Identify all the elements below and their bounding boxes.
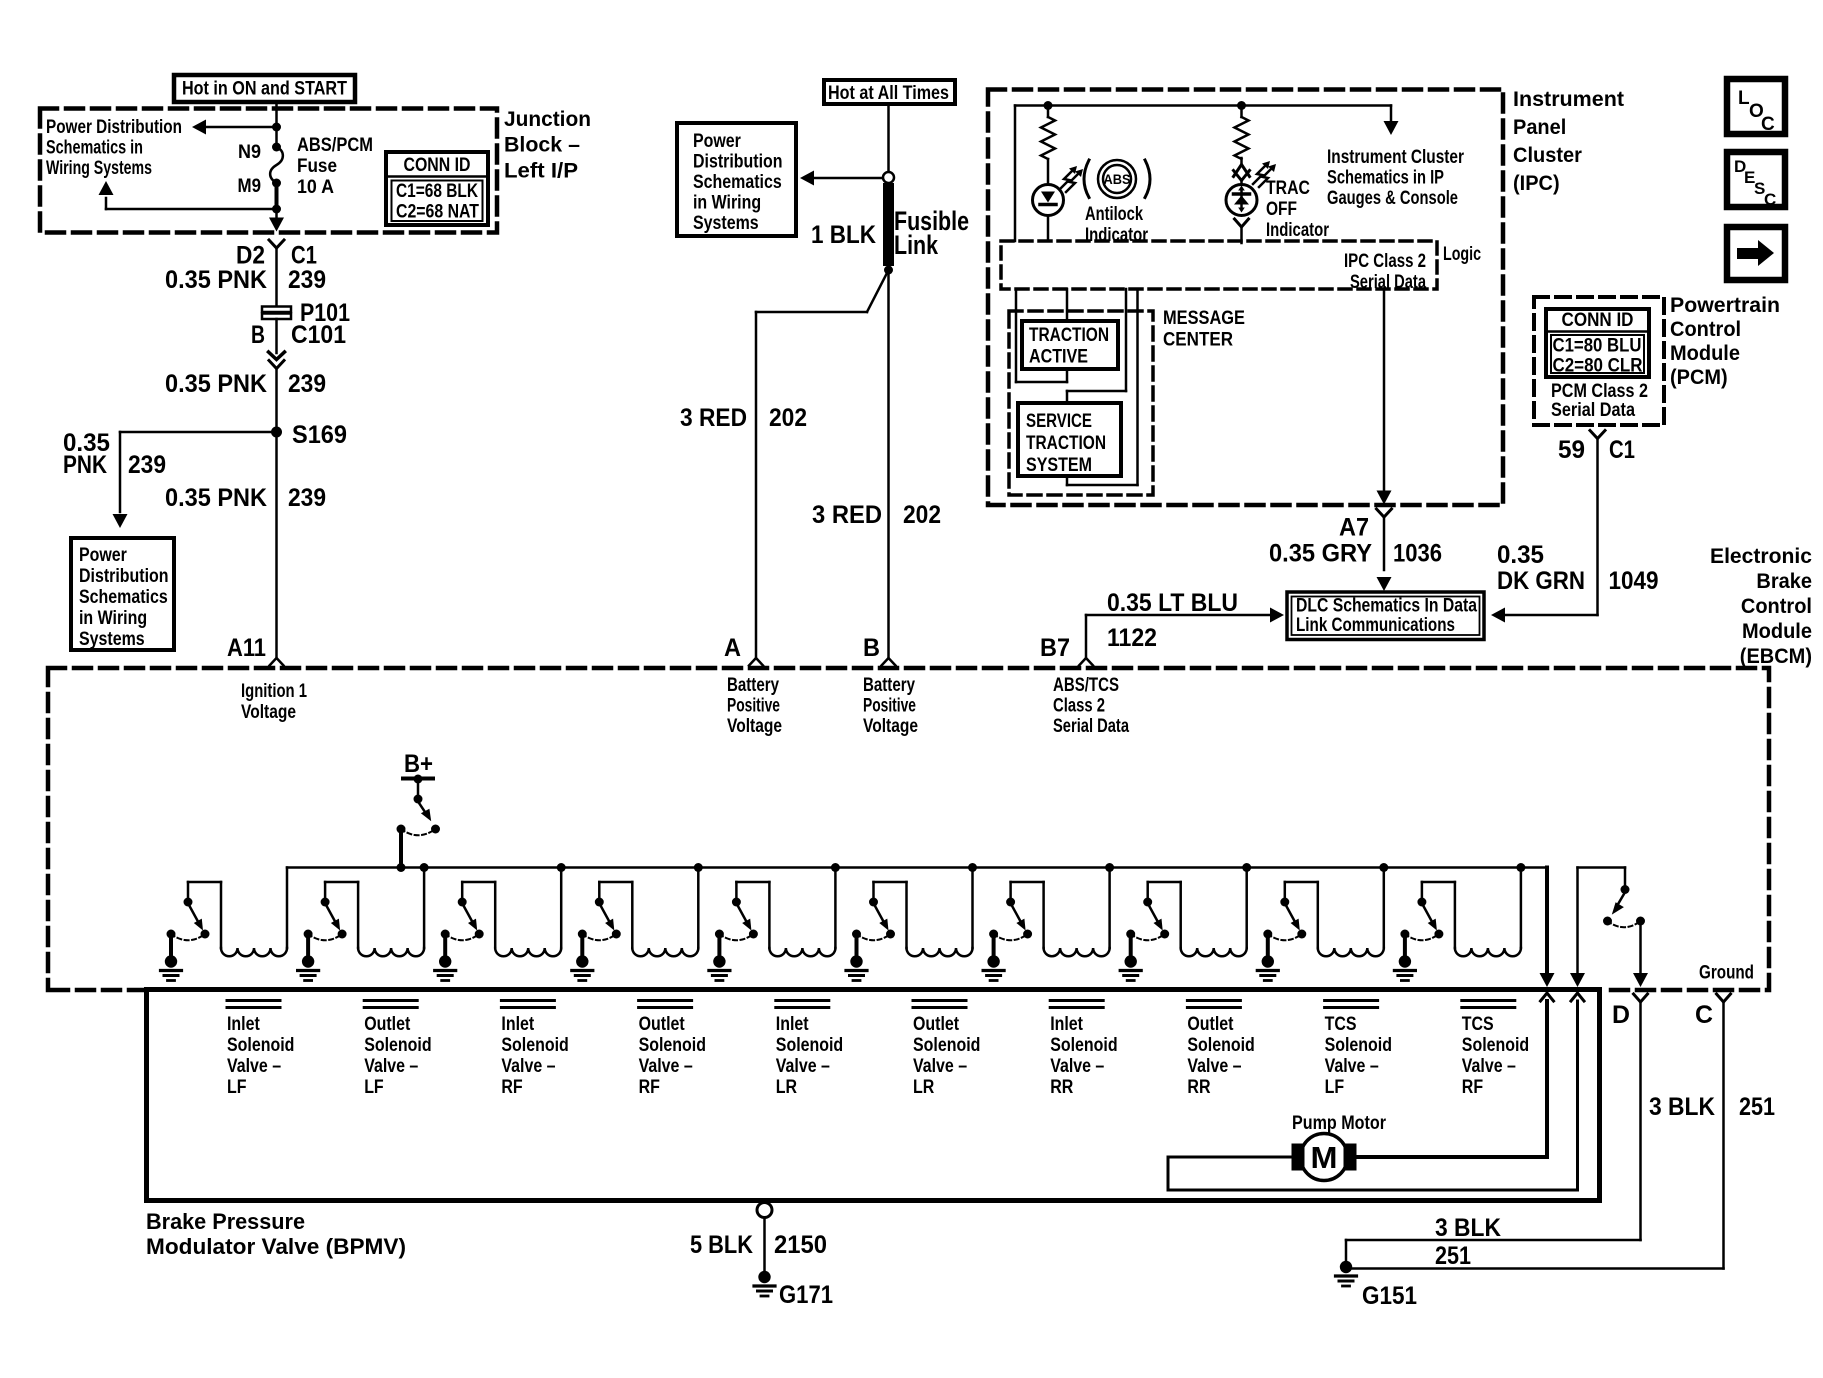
svg-text:SERVICE: SERVICE: [1026, 411, 1092, 432]
resistor R2 (TRAC OFF): [1235, 101, 1249, 159]
label IPC Class 2 Serial Data: [1344, 251, 1426, 293]
svg-text:Solenoid: Solenoid: [364, 1035, 431, 1056]
wire C101 to S169: [275, 369, 278, 433]
grommet P101: [262, 307, 291, 320]
label P101: [300, 299, 350, 327]
svg-text:TRACTION: TRACTION: [1029, 325, 1109, 346]
svg-text:3 RED: 3 RED: [812, 501, 882, 529]
svg-text:CENTER: CENTER: [1163, 330, 1233, 351]
svg-text:Valve –: Valve –: [776, 1056, 830, 1077]
label 3 BLK 251 (D wire): [1435, 1214, 1501, 1270]
diagonal wire below fusible link: [756, 270, 889, 312]
svg-text:B: B: [251, 321, 265, 349]
svg-text:Brake Pressure: Brake Pressure: [146, 1209, 305, 1234]
svg-text:in Wiring: in Wiring: [693, 193, 761, 214]
label 0.35 PNK 239 (row1): [165, 266, 326, 294]
svg-text:S169: S169: [292, 421, 347, 449]
fuse F1 ABS/PCM 10A: [270, 143, 283, 188]
label Logic: [1443, 244, 1481, 265]
solenoid driver cell 7 (Inlet RR): [983, 863, 1114, 981]
solenoid driver cell 9 (TCS LF): [1257, 863, 1388, 981]
label 0.35 PNK (branch): [63, 429, 110, 479]
svg-text:Valve –: Valve –: [227, 1056, 281, 1077]
svg-text:Battery: Battery: [863, 675, 915, 696]
terminal 59 C1 cup: [1590, 431, 1605, 439]
title Electronic Brake Control Module (EBCM): [1710, 544, 1812, 668]
pump motor M1: [1292, 1113, 1387, 1181]
svg-text:0.35: 0.35: [1497, 541, 1544, 569]
solenoid valve label 2 (Outlet LF): [364, 1001, 431, 1099]
solenoid driver cell 3 (Inlet RF): [435, 863, 566, 981]
svg-text:C: C: [1695, 1001, 1713, 1029]
resistor R1 (antilock): [1041, 101, 1055, 185]
wire from Hot box to fuse: [275, 102, 278, 147]
svg-text:Voltage: Voltage: [863, 716, 918, 737]
svg-text:5 BLK: 5 BLK: [690, 1231, 753, 1259]
label MESSAGE CENTER: [1163, 308, 1245, 351]
label 3 RED 202 (wire A): [680, 404, 807, 432]
lightning arrows (TRAC OFF): [1253, 161, 1276, 187]
svg-text:251: 251: [1435, 1242, 1471, 1270]
label Instrument Cluster Schematics in IP Gauges & Console: [1327, 147, 1464, 209]
svg-text:Class 2: Class 2: [1053, 696, 1105, 717]
svg-text:Ignition 1: Ignition 1: [241, 681, 307, 702]
solenoid valve label 10 (TCS RF): [1462, 1001, 1529, 1099]
label ABS/PCM Fuse 10 A: [297, 135, 373, 198]
svg-text:A11: A11: [227, 634, 266, 662]
B+ switch: [397, 750, 441, 868]
svg-text:Gauges & Console: Gauges & Console: [1327, 188, 1458, 209]
svg-text:Junction: Junction: [504, 107, 591, 131]
svg-text:Module: Module: [1742, 619, 1812, 643]
svg-text:CONN ID: CONN ID: [404, 155, 471, 176]
exit arrow from junction block: [269, 209, 284, 232]
svg-text:LF: LF: [364, 1077, 384, 1098]
wire P101 to C101: [275, 319, 278, 353]
label 239 (branch): [128, 451, 166, 479]
svg-text:N9: N9: [238, 141, 261, 163]
svg-text:Link Communications: Link Communications: [1296, 615, 1455, 636]
solenoid valve label 1 (Inlet LF): [227, 1001, 294, 1099]
svg-text:LF: LF: [1325, 1077, 1345, 1098]
svg-text:D: D: [1612, 1001, 1630, 1029]
Hot in ON and START box: [174, 75, 355, 102]
label B / C101: [251, 321, 346, 349]
svg-text:Schematics: Schematics: [79, 587, 168, 608]
inline connector C101: [269, 352, 285, 369]
svg-text:Outlet: Outlet: [639, 1014, 686, 1035]
ground G171: [754, 1271, 775, 1296]
bus feed to pump motor: [1540, 868, 1555, 988]
label 0.35 PNK 239 (row3): [165, 484, 326, 512]
svg-text:Voltage: Voltage: [241, 702, 296, 723]
svg-text:Module: Module: [1670, 341, 1740, 365]
label B7: [1040, 634, 1070, 662]
svg-text:A: A: [724, 634, 741, 662]
svg-text:C1=68 BLK: C1=68 BLK: [396, 181, 478, 202]
svg-text:Ground: Ground: [1699, 963, 1754, 984]
svg-text:C101: C101: [291, 321, 346, 349]
svg-text:3 RED: 3 RED: [680, 404, 747, 432]
svg-text:Electronic: Electronic: [1710, 544, 1812, 568]
svg-text:Brake: Brake: [1756, 569, 1812, 593]
svg-text:Solenoid: Solenoid: [1325, 1035, 1392, 1056]
terminal C cup: [1717, 994, 1731, 1002]
CONN ID table (PCM): [1546, 309, 1649, 377]
svg-text:Solenoid: Solenoid: [1050, 1035, 1117, 1056]
label 0.35 GRY 1036: [1269, 540, 1442, 568]
svg-text:Instrument: Instrument: [1513, 87, 1624, 111]
svg-text:Positive: Positive: [727, 696, 780, 717]
pump motor feed wire: [1357, 1001, 1548, 1157]
svg-text:202: 202: [769, 404, 807, 432]
svg-text:Valve –: Valve –: [1050, 1056, 1104, 1077]
solenoid driver cell 2 (Outlet LF): [298, 863, 429, 981]
svg-text:Cluster: Cluster: [1513, 143, 1582, 167]
svg-text:Schematics: Schematics: [693, 172, 782, 193]
DESC icon: [1727, 152, 1785, 209]
svg-text:1122: 1122: [1107, 624, 1157, 652]
svg-text:ABS/PCM: ABS/PCM: [297, 135, 373, 156]
solenoid driver cell 6 (Outlet LR): [846, 863, 977, 981]
svg-text:ABS/TCS: ABS/TCS: [1053, 675, 1119, 696]
label M9: [238, 175, 262, 197]
wire to P101: [275, 248, 278, 306]
wire C to G151: [1351, 1002, 1724, 1269]
ground wire G171: [757, 1203, 772, 1272]
svg-text:DK GRN: DK GRN: [1497, 567, 1585, 595]
svg-text:A7: A7: [1339, 514, 1369, 542]
svg-text:1049: 1049: [1609, 567, 1659, 595]
svg-text:C2=80 CLR: C2=80 CLR: [1553, 356, 1643, 377]
svg-text:Outlet: Outlet: [364, 1014, 411, 1035]
svg-text:(EBCM): (EBCM): [1740, 644, 1812, 668]
svg-text:C: C: [1764, 190, 1776, 209]
svg-text:C: C: [1761, 114, 1775, 135]
solenoid valve label 7 (Inlet RR): [1050, 1001, 1117, 1099]
svg-text:PCM Class 2: PCM Class 2: [1551, 381, 1648, 402]
svg-text:C1: C1: [1609, 436, 1635, 464]
ABS symbol: [1084, 160, 1150, 198]
solenoid driver cell 8 (Outlet RR): [1120, 863, 1251, 981]
EBCM dashed box: [48, 668, 1769, 990]
wire switch to D terminal: [1633, 925, 1648, 987]
LED TRAC OFF indicator: [1226, 185, 1257, 216]
label B: [863, 634, 880, 662]
svg-text:RF: RF: [639, 1077, 660, 1098]
svg-text:0.35 LT BLU: 0.35 LT BLU: [1107, 589, 1238, 617]
svg-text:251: 251: [1739, 1093, 1775, 1121]
svg-text:Valve –: Valve –: [501, 1056, 555, 1077]
connector cup below TRAC OFF LED: [1235, 219, 1249, 243]
solenoid valve label 5 (Inlet LR): [776, 1001, 843, 1099]
label 0.35 LT BLU 1122: [1107, 589, 1238, 652]
svg-text:OFF: OFF: [1266, 199, 1297, 220]
TRACTION ACTIVE box: [1022, 321, 1118, 369]
label TRAC OFF Indicator: [1266, 178, 1329, 241]
svg-text:LR: LR: [776, 1077, 798, 1098]
svg-text:Indicator: Indicator: [1085, 225, 1148, 246]
message center wires: [1016, 289, 1138, 485]
next-page arrow icon: [1727, 227, 1785, 280]
svg-text:B+: B+: [404, 750, 433, 778]
svg-text:Powertrain: Powertrain: [1670, 293, 1780, 317]
svg-text:Outlet: Outlet: [1187, 1014, 1234, 1035]
svg-text:M: M: [1311, 1140, 1338, 1175]
Power Distribution box (left): [71, 538, 174, 650]
wire S169 to A11: [275, 432, 278, 658]
svg-text:3 BLK: 3 BLK: [1649, 1093, 1715, 1121]
label 0.35 PNK 239 (row2): [165, 370, 326, 398]
svg-text:Voltage: Voltage: [727, 716, 782, 737]
SERVICE TRACTION SYSTEM box: [1018, 403, 1121, 476]
solenoid valve label 4 (Outlet RF): [639, 1001, 706, 1099]
svg-text:LF: LF: [227, 1077, 247, 1098]
label A11: [227, 634, 266, 662]
terminal D cup: [1634, 994, 1648, 1002]
svg-text:TCS: TCS: [1325, 1014, 1357, 1035]
svg-text:Power Distribution: Power Distribution: [46, 117, 182, 138]
svg-text:1 BLK: 1 BLK: [811, 221, 876, 249]
svg-text:ACTIVE: ACTIVE: [1029, 347, 1088, 368]
svg-text:Valve –: Valve –: [913, 1056, 967, 1077]
svg-text:in Wiring: in Wiring: [79, 608, 147, 629]
label Fusible Link: [894, 206, 969, 260]
label G151: [1362, 1282, 1417, 1310]
DLC box: [1287, 592, 1484, 640]
svg-text:Inlet: Inlet: [227, 1014, 260, 1035]
svg-text:Valve –: Valve –: [639, 1056, 693, 1077]
title Powertrain Control Module (PCM): [1670, 293, 1780, 389]
svg-text:Outlet: Outlet: [913, 1014, 960, 1035]
label 5 BLK 2150: [690, 1231, 827, 1259]
inline connector pair above TRAC OFF LED: [1234, 158, 1250, 185]
label S169: [292, 421, 347, 449]
svg-text:0.35 PNK: 0.35 PNK: [165, 266, 267, 294]
svg-text:0.35 GRY: 0.35 GRY: [1269, 540, 1372, 568]
svg-text:Link: Link: [894, 230, 938, 260]
svg-text:239: 239: [288, 484, 326, 512]
wire B down: [887, 270, 890, 658]
svg-text:Valve –: Valve –: [1187, 1056, 1241, 1077]
svg-text:(IPC): (IPC): [1513, 171, 1560, 195]
svg-text:(PCM): (PCM): [1670, 365, 1728, 389]
logic dashed box: [1001, 241, 1437, 289]
svg-text:RF: RF: [1462, 1077, 1483, 1098]
svg-text:Hot at All Times: Hot at All Times: [828, 83, 949, 104]
svg-text:TRAC: TRAC: [1266, 178, 1310, 199]
solenoid valve label 3 (Inlet RF): [501, 1001, 568, 1099]
IPC supply wire: [1015, 106, 1391, 242]
label A7: [1339, 514, 1369, 542]
svg-text:Indicator: Indicator: [1266, 220, 1329, 241]
svg-text:G151: G151: [1362, 1282, 1417, 1310]
label N9: [238, 141, 261, 163]
svg-text:IPC Class 2: IPC Class 2: [1344, 251, 1426, 272]
svg-text:1036: 1036: [1393, 540, 1442, 568]
svg-text:Block –: Block –: [504, 133, 580, 157]
svg-text:M9: M9: [238, 175, 262, 197]
svg-text:Inlet: Inlet: [501, 1014, 534, 1035]
svg-text:Solenoid: Solenoid: [501, 1035, 568, 1056]
svg-text:0.35 PNK: 0.35 PNK: [165, 484, 267, 512]
label ABS/TCS Class 2 Serial Data: [1053, 675, 1129, 737]
label Antilock Indicator: [1085, 204, 1148, 246]
svg-text:C2=68 NAT: C2=68 NAT: [396, 202, 479, 223]
svg-text:Schematics in IP: Schematics in IP: [1327, 168, 1444, 189]
IPC class2 output wire A7: [1377, 289, 1392, 505]
svg-text:Battery: Battery: [727, 675, 779, 696]
label 3 RED 202 (wire B): [812, 501, 941, 529]
svg-text:Power: Power: [79, 545, 127, 566]
label 3 BLK 251 (C wire): [1649, 1093, 1775, 1121]
svg-text:Fuse: Fuse: [297, 156, 337, 177]
svg-text:2150: 2150: [774, 1231, 827, 1259]
svg-text:Solenoid: Solenoid: [639, 1035, 706, 1056]
svg-text:Inlet: Inlet: [1050, 1014, 1083, 1035]
svg-text:Panel: Panel: [1513, 115, 1566, 139]
label C: [1695, 1001, 1713, 1029]
svg-text:Positive: Positive: [863, 696, 916, 717]
svg-text:Valve –: Valve –: [1462, 1056, 1516, 1077]
svg-text:MESSAGE: MESSAGE: [1163, 308, 1245, 329]
svg-text:DLC Schematics In Data: DLC Schematics In Data: [1296, 596, 1477, 617]
terminal B chevron: [882, 658, 896, 666]
CONN ID table (junction block): [386, 152, 488, 225]
label Battery Positive Voltage (A): [727, 675, 782, 737]
svg-text:SYSTEM: SYSTEM: [1026, 455, 1092, 476]
terminal A7 cup: [1377, 509, 1392, 591]
message center dashed box: [1009, 311, 1153, 495]
label Battery Positive Voltage (B): [863, 675, 918, 737]
svg-text:0.35 PNK: 0.35 PNK: [165, 370, 267, 398]
svg-text:Control: Control: [1741, 594, 1812, 618]
svg-text:Wiring Systems: Wiring Systems: [46, 158, 152, 179]
solenoid valve label 6 (Outlet LR): [913, 1001, 980, 1099]
svg-text:Distribution: Distribution: [693, 152, 783, 173]
svg-text:Solenoid: Solenoid: [227, 1035, 294, 1056]
wire PCM to DLC: [1491, 439, 1598, 623]
solenoid valve label 9 (TCS LF): [1325, 1001, 1392, 1099]
svg-text:Serial Data: Serial Data: [1551, 400, 1635, 421]
svg-text:LR: LR: [913, 1077, 935, 1098]
fusible link: [883, 172, 894, 275]
svg-text:C1=80 BLU: C1=80 BLU: [1553, 336, 1642, 357]
arrow to Instrument Cluster Schematics: [1384, 106, 1399, 136]
IPC dashed box: [988, 90, 1503, 506]
terminal A chevron: [749, 658, 763, 666]
pump motor return wire: [1168, 1001, 1578, 1190]
svg-text:TRACTION: TRACTION: [1026, 433, 1106, 454]
svg-text:B7: B7: [1040, 634, 1070, 662]
svg-text:Power: Power: [693, 131, 741, 152]
svg-text:Control: Control: [1670, 317, 1741, 341]
Hot at All Times box: [824, 80, 955, 104]
label PCM Class 2 Serial Data: [1551, 381, 1648, 421]
svg-text:Hot in ON and START: Hot in ON and START: [182, 79, 347, 100]
label 1 BLK: [811, 221, 876, 249]
svg-text:Left I/P: Left I/P: [504, 159, 578, 183]
svg-text:3 BLK: 3 BLK: [1435, 1214, 1501, 1242]
svg-text:239: 239: [128, 451, 166, 479]
svg-text:Valve –: Valve –: [1325, 1056, 1379, 1077]
svg-text:Instrument Cluster: Instrument Cluster: [1327, 147, 1464, 168]
BPMV box: [147, 990, 1600, 1201]
svg-text:Pump Motor: Pump Motor: [1292, 1113, 1387, 1134]
solenoid valve label 8 (Outlet RR): [1187, 1001, 1254, 1099]
Power Distribution box (middle): [677, 123, 796, 236]
svg-text:ABS: ABS: [1104, 172, 1131, 187]
label D2 / C1: [236, 242, 317, 270]
svg-text:Solenoid: Solenoid: [776, 1035, 843, 1056]
svg-text:Solenoid: Solenoid: [913, 1035, 980, 1056]
branch to power distribution up-arrow: [99, 181, 282, 214]
lightning arrows (antilock): [1060, 166, 1083, 192]
svg-text:10 A: 10 A: [297, 177, 334, 198]
svg-text:G171: G171: [779, 1281, 833, 1309]
wire Hot box to fusible link: [887, 104, 890, 172]
svg-text:RF: RF: [501, 1077, 522, 1098]
svg-text:CONN ID: CONN ID: [1562, 310, 1634, 331]
label 59 / C1: [1558, 436, 1635, 464]
solenoid driver cell 1 (Inlet LF): [161, 868, 288, 981]
branch wire to power distribution box: [113, 432, 277, 528]
svg-text:RR: RR: [1050, 1077, 1073, 1098]
connector C1 cup below junction block: [269, 240, 284, 248]
terminal A11 chevron: [270, 658, 284, 666]
svg-text:PNK: PNK: [63, 451, 107, 479]
pump feed chevron into BPMV: [1541, 993, 1554, 1001]
svg-text:Modulator Valve (BPMV): Modulator Valve (BPMV): [146, 1234, 406, 1259]
svg-text:239: 239: [288, 266, 326, 294]
solenoid driver cell 4 (Outlet RF): [572, 863, 703, 981]
pump motor relay switch: [1603, 885, 1645, 927]
svg-text:TCS: TCS: [1462, 1014, 1494, 1035]
label G171: [779, 1281, 833, 1309]
text Power Distribution Schematics in Wiring Systems (junction block): [46, 117, 182, 179]
label A: [724, 634, 741, 662]
title Instrument Panel Cluster (IPC): [1513, 87, 1624, 195]
svg-text:Schematics in: Schematics in: [46, 138, 143, 159]
svg-text:Valve –: Valve –: [364, 1056, 418, 1077]
pump return chevron into BPMV: [1571, 993, 1584, 1001]
LED antilock indicator: [1033, 185, 1064, 242]
svg-text:Solenoid: Solenoid: [1187, 1035, 1254, 1056]
label 0.35 DK GRN 1049: [1497, 541, 1659, 595]
left arrow to Power Distribution: [192, 120, 281, 135]
terminal B7 chevron and wire to DLC: [1079, 608, 1284, 666]
ground G151: [1336, 1261, 1357, 1286]
label Ignition 1 Voltage: [241, 681, 307, 723]
title Junction Block - Left I/P: [504, 107, 591, 183]
title Brake Pressure Modulator Valve (BPMV): [146, 1209, 406, 1259]
svg-text:202: 202: [903, 501, 941, 529]
wire A branch down: [755, 312, 758, 658]
svg-text:Solenoid: Solenoid: [1462, 1035, 1529, 1056]
svg-text:59: 59: [1558, 436, 1585, 464]
svg-text:Antilock: Antilock: [1085, 204, 1143, 225]
svg-text:B: B: [863, 634, 880, 662]
svg-text:RR: RR: [1187, 1077, 1210, 1098]
svg-text:Systems: Systems: [693, 213, 759, 234]
svg-text:Logic: Logic: [1443, 244, 1481, 265]
wire D to G151: [1346, 1002, 1641, 1262]
pump return riser: [1570, 868, 1625, 988]
svg-text:Serial Data: Serial Data: [1350, 272, 1426, 293]
arrow to Power Distribution (middle): [800, 171, 883, 186]
junction block dashed box: [40, 109, 497, 233]
solenoid driver cell 5 (Inlet LR): [709, 863, 840, 981]
